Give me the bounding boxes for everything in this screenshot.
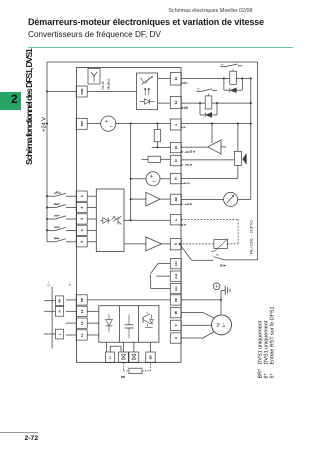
svg-text:O: O	[174, 159, 178, 162]
svg-text:Entrée RST sur le DFS1: Entrée RST sur le DFS1	[270, 306, 276, 364]
svg-text:K14: K14	[175, 273, 178, 278]
svg-text:11: 11	[174, 77, 178, 81]
svg-text:FWD: FWD	[54, 191, 61, 194]
svg-text:L: L	[59, 333, 62, 335]
svg-text:4...20 mA: 4...20 mA	[180, 150, 196, 153]
svg-text:0...10 V: 0...10 V	[180, 203, 193, 205]
svg-text:+10 V: +10 V	[180, 182, 190, 184]
svg-text:L2: L2	[80, 321, 84, 325]
svg-text:6: 6	[80, 241, 84, 243]
svg-text:PE: PE	[80, 298, 84, 302]
svg-text:12: 12	[174, 101, 178, 105]
svg-text:L: L	[174, 123, 178, 125]
svg-text:Modbus: Modbus	[107, 78, 111, 89]
svg-text:RJ 45: RJ 45	[101, 81, 105, 89]
svg-text:5*: 5*	[270, 373, 276, 379]
svg-text:1: 1	[80, 195, 84, 197]
svg-text:4: 4	[80, 229, 84, 231]
svg-text:1 ~: 1 ~	[46, 281, 50, 286]
svg-text:PE: PE	[59, 299, 62, 303]
svg-text:W: W	[174, 310, 178, 314]
svg-text:RST: RST	[54, 237, 61, 239]
svg-text:K11: K11	[175, 261, 178, 266]
svg-text:ϑ: ϑ	[216, 254, 220, 256]
svg-text:FA1: FA1	[181, 81, 189, 84]
svg-text:H: H	[174, 177, 178, 180]
svg-text:* PNU C005 → 19 (PTC): * PNU C005 → 19 (PTC)	[250, 220, 254, 256]
svg-text:RST: RST	[219, 264, 227, 267]
svg-text:N: N	[59, 310, 62, 312]
svg-text:FF2: FF2	[54, 226, 61, 228]
svg-text:L1: L1	[80, 333, 84, 337]
svg-text:RUN: RUN	[181, 106, 190, 109]
svg-text:OI: OI	[174, 146, 178, 149]
svg-text:AM: AM	[174, 197, 178, 202]
svg-text:REV: REV	[54, 203, 61, 205]
svg-text:PE: PE	[174, 298, 178, 302]
svg-text:3 ~: 3 ~	[222, 322, 226, 327]
svg-text:3 ~: 3 ~	[68, 281, 72, 286]
svg-text:L+: L+	[109, 355, 112, 359]
svg-text:BR: BR	[150, 355, 153, 359]
svg-text:FF1: FF1	[54, 214, 61, 216]
svg-text:3: 3	[80, 218, 84, 220]
svg-text:P24: P24	[80, 121, 84, 127]
svg-text:K12: K12	[175, 286, 178, 291]
svg-text:V: V	[174, 323, 178, 326]
svg-text:5: 5	[174, 243, 178, 245]
svg-text:U: U	[174, 336, 178, 339]
svg-text:L3: L3	[80, 309, 84, 313]
svg-text:CM2: CM2	[80, 88, 84, 94]
svg-text:M: M	[216, 323, 221, 327]
svg-text:L: L	[174, 219, 178, 221]
svg-text:RB: RB	[120, 375, 126, 378]
svg-text:2: 2	[80, 206, 84, 208]
svg-text:0...10 V: 0...10 V	[180, 163, 193, 165]
